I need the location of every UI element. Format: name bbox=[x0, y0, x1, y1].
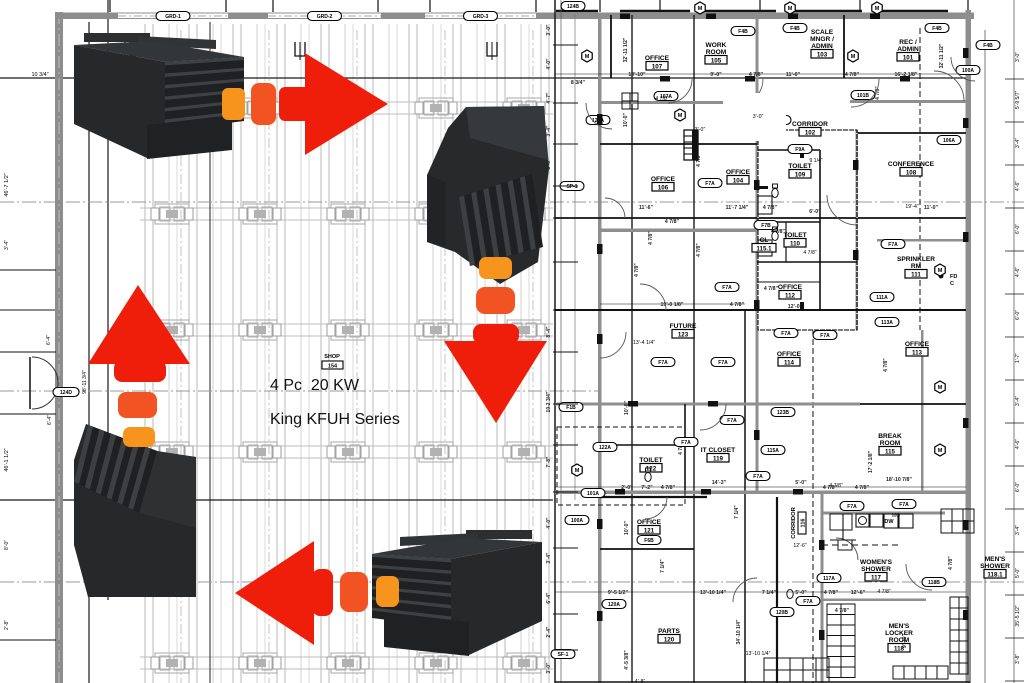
svg-text:123: 123 bbox=[678, 331, 689, 338]
svg-text:8’-0”: 8’-0” bbox=[4, 540, 10, 550]
svg-text:113: 113 bbox=[912, 349, 923, 356]
svg-text:7’-8”: 7’-8” bbox=[546, 456, 552, 468]
svg-text:F4B: F4B bbox=[738, 29, 748, 35]
svg-text:3’-0”: 3’-0” bbox=[695, 127, 706, 133]
svg-text:10 3/4”: 10 3/4” bbox=[31, 72, 48, 78]
svg-text:109: 109 bbox=[795, 171, 806, 178]
svg-text:5’-0”: 5’-0” bbox=[1015, 568, 1021, 578]
svg-text:32’-11 1/2”: 32’-11 1/2” bbox=[623, 37, 629, 62]
svg-text:F1B: F1B bbox=[566, 405, 576, 411]
svg-text:123B: 123B bbox=[777, 410, 789, 416]
svg-text:F7A: F7A bbox=[722, 285, 732, 291]
svg-text:6’-0”: 6’-0” bbox=[1015, 310, 1021, 320]
svg-text:F7A: F7A bbox=[727, 418, 737, 424]
svg-text:122: 122 bbox=[646, 465, 657, 472]
svg-text:4’-8”: 4’-8” bbox=[635, 679, 646, 683]
svg-text:98’-11 3/4”: 98’-11 3/4” bbox=[82, 370, 88, 394]
svg-text:M: M bbox=[851, 54, 856, 60]
svg-text:F4B: F4B bbox=[983, 43, 993, 49]
svg-text:SF-1: SF-1 bbox=[558, 652, 569, 658]
svg-text:101: 101 bbox=[903, 54, 914, 61]
svg-text:120B: 120B bbox=[776, 610, 788, 616]
svg-text:32’-11 1/2”: 32’-11 1/2” bbox=[939, 43, 945, 68]
svg-text:8 3/4”: 8 3/4” bbox=[571, 80, 586, 86]
svg-text:34’-10 1/4”: 34’-10 1/4” bbox=[736, 619, 742, 645]
svg-text:5’-9 5/7”: 5’-9 5/7” bbox=[1015, 90, 1021, 109]
svg-text:120A: 120A bbox=[608, 602, 620, 608]
svg-text:5’-0”: 5’-0” bbox=[795, 590, 807, 596]
svg-text:4 7/8”: 4 7/8” bbox=[829, 483, 843, 489]
svg-text:C: C bbox=[950, 281, 954, 287]
svg-text:BREAK: BREAK bbox=[878, 433, 902, 440]
svg-text:110: 110 bbox=[790, 240, 801, 247]
svg-text:WORK: WORK bbox=[706, 42, 727, 49]
svg-text:115: 115 bbox=[885, 448, 896, 455]
svg-text:M: M bbox=[938, 448, 943, 454]
svg-text:DW: DW bbox=[884, 519, 894, 525]
svg-text:105: 105 bbox=[711, 57, 722, 64]
svg-text:2’-8”: 2’-8” bbox=[4, 620, 10, 630]
svg-text:122A: 122A bbox=[599, 445, 611, 451]
svg-text:10’-10”: 10’-10” bbox=[628, 72, 646, 78]
svg-text:9 1/4”: 9 1/4” bbox=[809, 158, 823, 164]
svg-text:46’-1 1/2”: 46’-1 1/2” bbox=[4, 448, 10, 471]
svg-text:18’-10 7/8”: 18’-10 7/8” bbox=[886, 477, 912, 483]
svg-text:4’-7”: 4’-7” bbox=[546, 92, 552, 104]
svg-text:14’-3”: 14’-3” bbox=[712, 480, 727, 486]
svg-text:3’-0”: 3’-0” bbox=[546, 24, 552, 36]
svg-text:F4B: F4B bbox=[790, 26, 800, 32]
svg-text:4 7/8”: 4 7/8” bbox=[661, 485, 676, 491]
svg-text:3’-4”: 3’-4” bbox=[1015, 396, 1021, 406]
svg-text:6’-4”: 6’-4” bbox=[546, 592, 552, 604]
svg-text:King KFUH Series: King KFUH Series bbox=[270, 411, 400, 428]
svg-text:119: 119 bbox=[713, 455, 724, 462]
svg-text:SPRINKLER: SPRINKLER bbox=[897, 256, 935, 263]
svg-text:7 1/4”: 7 1/4” bbox=[762, 590, 777, 596]
svg-text:111: 111 bbox=[911, 271, 921, 278]
svg-text:4’-0”: 4’-0” bbox=[546, 58, 552, 70]
svg-text:103: 103 bbox=[817, 51, 828, 58]
svg-text:FD: FD bbox=[950, 274, 957, 280]
svg-text:4 7/8”: 4 7/8” bbox=[948, 556, 954, 570]
svg-text:4 7/8”: 4 7/8” bbox=[634, 263, 640, 277]
svg-text:4 7/8”: 4 7/8” bbox=[835, 608, 850, 614]
svg-text:112: 112 bbox=[785, 292, 796, 299]
svg-text:F7A: F7A bbox=[899, 502, 909, 508]
svg-text:3’-4”: 3’-4” bbox=[1015, 525, 1021, 535]
svg-text:4 7/8”: 4 7/8” bbox=[883, 358, 889, 372]
svg-text:4 7/8”: 4 7/8” bbox=[855, 485, 870, 491]
svg-text:M: M bbox=[938, 385, 943, 391]
svg-text:F9A: F9A bbox=[795, 147, 805, 153]
svg-text:9’-0”: 9’-0” bbox=[710, 72, 722, 78]
svg-text:4’-5 3/8”: 4’-5 3/8” bbox=[624, 650, 630, 670]
svg-text:114: 114 bbox=[784, 359, 795, 366]
svg-text:SCALE: SCALE bbox=[811, 29, 834, 36]
svg-text:10’-0”: 10’-0” bbox=[624, 521, 630, 535]
svg-text:F7A: F7A bbox=[658, 360, 668, 366]
svg-text:M: M bbox=[585, 54, 590, 60]
svg-text:M: M bbox=[698, 6, 703, 12]
svg-text:12’-0”: 12’-0” bbox=[788, 304, 803, 310]
svg-text:4 7/8”: 4 7/8” bbox=[803, 250, 817, 256]
svg-text:3’-4”: 3’-4” bbox=[546, 552, 552, 564]
svg-text:115.1: 115.1 bbox=[756, 245, 772, 252]
svg-text:19’-4”: 19’-4” bbox=[905, 204, 919, 210]
svg-text:13’-4 1/4”: 13’-4 1/4” bbox=[633, 340, 655, 346]
svg-text:F7A: F7A bbox=[888, 242, 898, 248]
svg-text:4 7/8”: 4 7/8” bbox=[696, 243, 702, 257]
svg-text:M: M bbox=[678, 113, 683, 119]
svg-text:8’-4”: 8’-4” bbox=[546, 326, 552, 338]
svg-text:M: M bbox=[788, 6, 793, 12]
svg-text:108: 108 bbox=[906, 169, 917, 176]
svg-text:F7A: F7A bbox=[820, 333, 830, 339]
svg-text:3’-0”: 3’-0” bbox=[1015, 52, 1021, 62]
svg-text:F7A: F7A bbox=[781, 331, 791, 337]
svg-text:REC /: REC / bbox=[899, 39, 917, 46]
svg-text:MEN'S: MEN'S bbox=[985, 556, 1006, 563]
svg-text:M: M bbox=[938, 268, 943, 274]
svg-text:GRD-2: GRD-2 bbox=[317, 14, 333, 20]
svg-text:3’-0”: 3’-0” bbox=[753, 114, 764, 120]
svg-text:118B: 118B bbox=[928, 580, 940, 586]
svg-text:6’-4”: 6’-4” bbox=[47, 415, 53, 425]
svg-text:3’-0”: 3’-0” bbox=[546, 662, 552, 674]
svg-text:9’-5 1/2”: 9’-5 1/2” bbox=[608, 590, 629, 596]
svg-text:3’-4”: 3’-4” bbox=[1015, 138, 1021, 148]
svg-text:111A: 111A bbox=[876, 295, 888, 301]
svg-text:4 7/8”: 4 7/8” bbox=[665, 219, 680, 225]
svg-text:11’-7 1/4”: 11’-7 1/4” bbox=[726, 205, 749, 211]
svg-text:4 7/8”: 4 7/8” bbox=[764, 286, 779, 292]
svg-text:4 7/8”: 4 7/8” bbox=[730, 302, 745, 308]
svg-text:12’-6”: 12’-6” bbox=[793, 543, 807, 549]
svg-text:116: 116 bbox=[801, 519, 807, 528]
svg-text:13’-10 1/4”: 13’-10 1/4” bbox=[746, 651, 771, 657]
svg-text:9’-10”: 9’-10” bbox=[902, 634, 908, 648]
svg-text:35’-5 1/2”: 35’-5 1/2” bbox=[1015, 605, 1021, 626]
svg-text:115A: 115A bbox=[767, 448, 779, 454]
svg-text:4 Pc 20 KW: 4 Pc 20 KW bbox=[270, 377, 360, 394]
svg-text:4’-6”: 4’-6” bbox=[1015, 181, 1021, 191]
svg-text:3’-4”: 3’-4” bbox=[4, 240, 10, 250]
svg-text:4 7/8”: 4 7/8” bbox=[648, 231, 654, 245]
svg-text:10-2 3/4”: 10-2 3/4” bbox=[546, 391, 552, 412]
svg-text:4’-6”: 4’-6” bbox=[1015, 267, 1021, 277]
svg-text:118.1: 118.1 bbox=[987, 571, 1003, 578]
svg-text:F7B: F7B bbox=[761, 223, 771, 229]
svg-text:MNGR /: MNGR / bbox=[810, 36, 834, 43]
svg-text:107: 107 bbox=[652, 63, 663, 70]
svg-text:4 7/8”: 4 7/8” bbox=[845, 72, 860, 78]
svg-text:SHOP: SHOP bbox=[324, 354, 340, 360]
svg-text:1’-7”: 1’-7” bbox=[1015, 353, 1021, 363]
svg-text:F6B: F6B bbox=[644, 538, 654, 544]
svg-text:2’-4”: 2’-4” bbox=[546, 626, 552, 638]
svg-text:F7A: F7A bbox=[681, 440, 691, 446]
svg-text:WOMEN'S: WOMEN'S bbox=[860, 559, 893, 566]
svg-text:M: M bbox=[575, 468, 580, 474]
svg-text:6’-0”: 6’-0” bbox=[1015, 224, 1021, 234]
svg-text:10’-0”: 10’-0” bbox=[623, 113, 629, 127]
svg-text:4 7/8”: 4 7/8” bbox=[655, 96, 669, 102]
svg-text:7 1/4”: 7 1/4” bbox=[734, 505, 740, 519]
svg-text:19’-0 1/8”: 19’-0 1/8” bbox=[660, 302, 683, 308]
svg-text:4 7/8”: 4 7/8” bbox=[824, 590, 839, 596]
svg-text:MEN'S: MEN'S bbox=[889, 623, 910, 630]
svg-text:M: M bbox=[875, 6, 880, 12]
svg-text:4’-0”: 4’-0” bbox=[546, 517, 552, 529]
svg-text:104: 104 bbox=[733, 177, 744, 184]
svg-text:7’-2”: 7’-2” bbox=[641, 485, 653, 491]
svg-text:121: 121 bbox=[644, 527, 655, 534]
svg-text:113A: 113A bbox=[881, 320, 893, 326]
svg-text:F4B: F4B bbox=[932, 26, 942, 32]
svg-text:SP-1: SP-1 bbox=[566, 184, 577, 190]
svg-text:3’-8”: 3’-8” bbox=[1015, 654, 1021, 664]
svg-text:13’-10 1/4”: 13’-10 1/4” bbox=[700, 590, 726, 596]
svg-text:11’-0”: 11’-0” bbox=[786, 72, 801, 78]
svg-text:4’-6”: 4’-6” bbox=[1015, 439, 1021, 449]
svg-text:F7A: F7A bbox=[718, 360, 728, 366]
svg-text:11’-0”: 11’-0” bbox=[924, 205, 939, 211]
svg-text:12’-6”: 12’-6” bbox=[851, 590, 866, 596]
svg-text:F7A: F7A bbox=[847, 504, 857, 510]
svg-text:11’-6”: 11’-6” bbox=[639, 205, 654, 211]
svg-text:GRD-3: GRD-3 bbox=[473, 14, 489, 20]
svg-text:46’-7 1/2”: 46’-7 1/2” bbox=[4, 173, 10, 196]
svg-text:CORRIDOR: CORRIDOR bbox=[791, 506, 797, 538]
svg-text:106A: 106A bbox=[943, 138, 955, 144]
svg-text:154: 154 bbox=[328, 364, 338, 370]
svg-text:7 1/4”: 7 1/4” bbox=[660, 559, 666, 573]
svg-text:GRD-1: GRD-1 bbox=[165, 14, 181, 20]
svg-text:6’-0”: 6’-0” bbox=[809, 209, 821, 215]
svg-text:17’-2 1/8”: 17’-2 1/8” bbox=[868, 450, 874, 473]
svg-text:LOCKER: LOCKER bbox=[885, 630, 913, 637]
svg-text:4 7/8”: 4 7/8” bbox=[763, 205, 778, 211]
svg-text:101B: 101B bbox=[857, 93, 869, 99]
svg-text:F7A: F7A bbox=[753, 474, 763, 480]
svg-text:F7A: F7A bbox=[705, 181, 715, 187]
svg-text:117A: 117A bbox=[823, 576, 835, 582]
svg-text:100A: 100A bbox=[962, 68, 974, 74]
svg-text:3’-4”: 3’-4” bbox=[546, 125, 552, 137]
svg-text:4 7/8”: 4 7/8” bbox=[877, 589, 891, 595]
svg-text:102: 102 bbox=[805, 129, 816, 136]
svg-text:101A: 101A bbox=[587, 491, 599, 497]
svg-text:6’-4”: 6’-4” bbox=[46, 335, 52, 345]
svg-text:100A: 100A bbox=[571, 518, 583, 524]
svg-text:106: 106 bbox=[658, 184, 669, 191]
svg-text:120: 120 bbox=[664, 636, 675, 643]
svg-text:5’-0”: 5’-0” bbox=[795, 480, 807, 486]
svg-text:117: 117 bbox=[871, 574, 882, 581]
svg-text:F7A: F7A bbox=[803, 599, 813, 605]
svg-text:124D: 124D bbox=[60, 390, 72, 396]
svg-text:124B: 124B bbox=[567, 4, 579, 10]
svg-text:6’-0”: 6’-0” bbox=[1015, 482, 1021, 492]
